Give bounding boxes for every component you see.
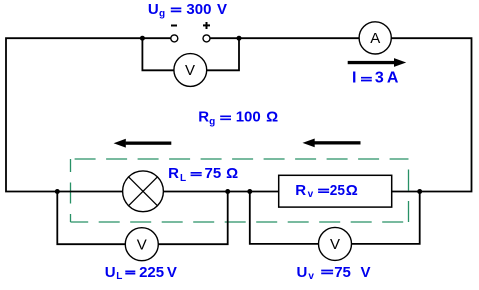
svg-text:V: V <box>185 62 195 79</box>
svg-text:A: A <box>387 70 399 87</box>
svg-text:V: V <box>330 236 340 253</box>
svg-text:g: g <box>209 116 215 127</box>
svg-text:75: 75 <box>205 165 222 182</box>
svg-text:225: 225 <box>139 264 164 281</box>
svg-text:25: 25 <box>330 182 345 199</box>
svg-text:V: V <box>361 264 371 281</box>
svg-text:L: L <box>116 271 122 282</box>
svg-text:L: L <box>180 173 186 184</box>
svg-text:I: I <box>352 70 356 87</box>
svg-text:g: g <box>159 9 165 20</box>
svg-text:v: v <box>308 271 314 282</box>
svg-text:Ω: Ω <box>346 182 358 199</box>
svg-text:R: R <box>198 109 209 126</box>
svg-text:v: v <box>308 189 314 200</box>
svg-text:Ω: Ω <box>226 165 238 182</box>
svg-text:R: R <box>168 165 179 182</box>
svg-text:U: U <box>297 264 308 281</box>
svg-text:100: 100 <box>236 109 261 126</box>
svg-text:U: U <box>105 264 116 281</box>
svg-text:V: V <box>167 264 177 281</box>
svg-text:3: 3 <box>375 70 384 87</box>
svg-text:U: U <box>148 1 159 18</box>
svg-text:75: 75 <box>334 264 351 281</box>
svg-text:A: A <box>370 30 380 47</box>
svg-text:300: 300 <box>186 1 211 18</box>
svg-text:V: V <box>217 1 227 18</box>
svg-text:V: V <box>137 236 147 253</box>
svg-text:R: R <box>295 182 306 199</box>
svg-text:Ω: Ω <box>266 109 278 126</box>
